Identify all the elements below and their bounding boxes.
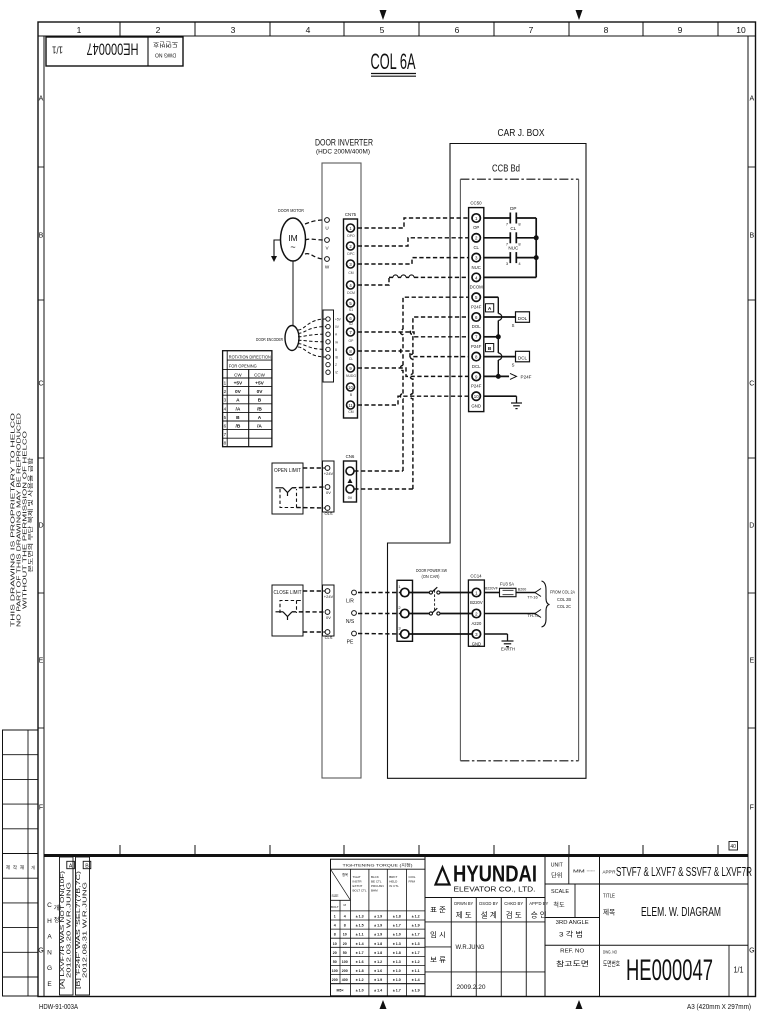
svg-text:CL: CL: [473, 245, 479, 250]
svg-text:± 1.2: ± 1.2: [356, 978, 364, 982]
svg-text:CC50: CC50: [470, 201, 482, 206]
svg-text:7: 7: [529, 25, 534, 35]
svg-text:DCL: DCL: [472, 364, 481, 369]
svg-text:(ON CAR): (ON CAR): [422, 574, 440, 580]
svg-text:+24V: +24V: [324, 594, 334, 599]
svg-text:TITLE: TITLE: [603, 894, 615, 900]
svg-text:W.R.JUNG: W.R.JUNG: [456, 945, 485, 951]
svg-text:P24F: P24F: [521, 375, 532, 380]
svg-text:0V: 0V: [257, 389, 264, 395]
svg-text:CN6: CN6: [346, 454, 355, 459]
svg-text:± 1.0: ± 1.0: [393, 978, 401, 982]
svg-text:+5V: +5V: [255, 381, 264, 387]
svg-text:GND: GND: [472, 641, 481, 646]
svg-text:P24F: P24F: [471, 384, 482, 389]
svg-text:도면번호: 도면번호: [153, 41, 178, 50]
svg-text:REF. NO: REF. NO: [560, 949, 584, 955]
svg-text:TT-16: TT-16: [527, 595, 538, 600]
svg-text:C: C: [47, 902, 52, 909]
svg-text:± 1.6: ± 1.6: [374, 969, 382, 973]
svg-text:4: 4: [306, 25, 311, 35]
svg-text:50: 50: [343, 951, 347, 955]
svg-text:2009.2.20: 2009.2.20: [457, 984, 486, 991]
svg-text:BHM: BHM: [371, 889, 378, 893]
svg-text:EXTNT: EXTNT: [353, 884, 363, 888]
svg-text:COL 2B: COL 2B: [557, 597, 571, 602]
svg-text:/B: /B: [235, 424, 240, 430]
svg-text:COL 2C: COL 2C: [557, 604, 571, 609]
svg-text:± 1.7: ± 1.7: [393, 989, 401, 993]
svg-text:2: 2: [156, 25, 161, 35]
svg-text:HE000047: HE000047: [87, 40, 139, 59]
svg-text:200: 200: [332, 978, 338, 982]
svg-text:CAR J. BOX: CAR J. BOX: [498, 128, 545, 139]
svg-text:100: 100: [342, 960, 348, 964]
svg-text:BLCK: BLCK: [371, 875, 379, 879]
svg-text:UNIT: UNIT: [551, 863, 564, 869]
svg-text:개: 개: [31, 864, 35, 870]
svg-text:4: 4: [334, 924, 336, 928]
svg-text:F: F: [39, 805, 43, 812]
svg-text:10: 10: [348, 385, 353, 390]
svg-text:S: S: [512, 323, 515, 328]
svg-text:± 1.9: ± 1.9: [412, 989, 420, 993]
svg-text:± 1.1: ± 1.1: [356, 933, 364, 937]
svg-text:1: 1: [77, 25, 82, 35]
svg-text:OP: OP: [473, 225, 479, 230]
svg-text:B220V: B220V: [470, 600, 483, 605]
svg-text:BRKT: BRKT: [389, 875, 397, 879]
svg-text:± 1.5: ± 1.5: [356, 924, 364, 928]
svg-text:본도면의 무단 복제 및 사용을 금함: 본도면의 무단 복제 및 사용을 금함: [27, 458, 35, 573]
svg-text:400: 400: [342, 978, 348, 982]
svg-text:척도: 척도: [553, 901, 565, 909]
svg-text:NUC: NUC: [508, 246, 519, 251]
svg-text:설 계: 설 계: [481, 911, 497, 920]
svg-text:B: B: [749, 233, 754, 240]
svg-text:A: A: [47, 934, 52, 941]
svg-text:± 1.8: ± 1.8: [393, 915, 401, 919]
svg-text:0V: 0V: [326, 490, 331, 495]
svg-text:± 1.3: ± 1.3: [412, 942, 420, 946]
svg-text:CCW: CCW: [254, 372, 265, 377]
svg-text:± 1.2: ± 1.2: [412, 960, 420, 964]
svg-text:N/S: N/S: [346, 619, 355, 625]
svg-text:COIL: COIL: [409, 875, 416, 879]
svg-text:BE CTL: BE CTL: [371, 880, 382, 884]
svg-text:± 1.4: ± 1.4: [412, 978, 420, 982]
svg-text:M5×: M5×: [336, 989, 343, 993]
svg-text:200: 200: [342, 969, 348, 973]
svg-text:± 1.2: ± 1.2: [412, 915, 420, 919]
svg-text:1/1: 1/1: [734, 966, 744, 975]
svg-text:± 1.3: ± 1.3: [356, 915, 364, 919]
svg-text:A: A: [39, 96, 44, 103]
svg-text:NUC: NUC: [472, 265, 481, 270]
svg-text:TIGHTENING TORQUE (지정): TIGHTENING TORQUE (지정): [343, 862, 414, 868]
svg-text:± 1.7: ± 1.7: [393, 924, 401, 928]
svg-text:DP: DP: [510, 206, 516, 211]
svg-text:40: 40: [730, 844, 736, 850]
svg-text:DCOM: DCOM: [470, 285, 484, 290]
svg-text:HDW-91-003A: HDW-91-003A: [39, 1002, 78, 1011]
svg-text:정: 정: [54, 917, 60, 924]
svg-text:INSTR: INSTR: [353, 880, 363, 884]
svg-text:± 1.7: ± 1.7: [412, 933, 420, 937]
svg-text:검 도: 검 도: [506, 911, 522, 920]
svg-text:A3 (420mm X 297mm): A3 (420mm X 297mm): [687, 1004, 751, 1011]
svg-text:재: 재: [20, 864, 24, 871]
svg-text:B: B: [236, 415, 240, 421]
svg-text:DOOR INVERTER: DOOR INVERTER: [315, 138, 373, 149]
svg-text:± 1.8: ± 1.8: [374, 951, 382, 955]
svg-text:DWG NO: DWG NO: [155, 52, 176, 58]
svg-text:C: C: [38, 381, 43, 388]
svg-text:A: A: [258, 415, 262, 421]
svg-text:3: 3: [231, 25, 236, 35]
svg-text:DSGD BY: DSGD BY: [479, 901, 498, 906]
svg-text:DCL: DCL: [518, 356, 528, 361]
svg-text:9: 9: [678, 25, 683, 35]
svg-text:A: A: [236, 398, 240, 404]
svg-text:H: H: [47, 918, 52, 925]
svg-text:G: G: [749, 948, 754, 955]
svg-text:S1: S1: [349, 308, 353, 312]
svg-text:/B: /B: [335, 356, 338, 360]
svg-text:20: 20: [333, 951, 337, 955]
svg-text:BOLT: BOLT: [331, 905, 339, 909]
svg-text:G: G: [38, 948, 43, 955]
svg-text:+5V: +5V: [234, 381, 243, 387]
svg-text:DWG. NO: DWG. NO: [603, 950, 617, 956]
svg-text:± 1.1: ± 1.1: [412, 969, 420, 973]
svg-text:± 1.0: ± 1.0: [393, 969, 401, 973]
svg-text:DRWN BY: DRWN BY: [454, 901, 473, 906]
svg-text:U: U: [325, 226, 328, 231]
svg-text:DPC: DPC: [347, 252, 355, 256]
svg-text:E: E: [749, 658, 754, 665]
svg-text:MM ┄┄: MM ┄┄: [573, 869, 595, 874]
svg-text:FROM COL 2A: FROM COL 2A: [550, 590, 575, 595]
svg-text:10: 10: [333, 942, 337, 946]
svg-text:DOL: DOL: [472, 324, 481, 329]
svg-text:± 1.4: ± 1.4: [356, 942, 364, 946]
svg-text:D: D: [38, 523, 43, 530]
svg-text:(HDC 200M/400M): (HDC 200M/400M): [316, 149, 370, 156]
svg-text:8: 8: [604, 25, 609, 35]
svg-text:ROTATION DIRECTION: ROTATION DIRECTION: [229, 354, 271, 359]
svg-text:E: E: [39, 658, 44, 665]
svg-text:OLS: OLS: [324, 511, 332, 516]
svg-text:/B: /B: [257, 406, 262, 412]
svg-text:3RD ANGLE: 3RD ANGLE: [556, 920, 590, 926]
svg-text:W: W: [325, 265, 330, 270]
svg-text:항목: 항목: [342, 872, 348, 877]
svg-text:10: 10: [343, 933, 347, 937]
svg-text:COL 6A: COL 6A: [371, 49, 416, 74]
svg-text:8: 8: [344, 924, 346, 928]
svg-text:N: N: [47, 949, 52, 956]
svg-text:임 시: 임 시: [430, 931, 446, 939]
svg-text:CM: CM: [348, 271, 353, 275]
svg-text:도면번호: 도면번호: [603, 959, 620, 968]
svg-text:A: A: [69, 863, 73, 869]
svg-text:± 1.3: ± 1.3: [393, 942, 401, 946]
svg-text:FRM: FRM: [409, 880, 416, 884]
svg-text:B200: B200: [518, 588, 526, 592]
svg-text:± 1.7: ± 1.7: [356, 951, 364, 955]
svg-text:B: B: [85, 863, 89, 869]
svg-text:E: E: [47, 981, 52, 988]
svg-text:HELD: HELD: [389, 880, 398, 884]
svg-text:참고도면: 참고도면: [556, 959, 589, 968]
svg-text:CC14: CC14: [470, 574, 482, 579]
svg-text:D: D: [749, 523, 754, 530]
svg-text:± 1.8: ± 1.8: [374, 942, 382, 946]
svg-text:± 1.9: ± 1.9: [374, 933, 382, 937]
svg-text:PE: PE: [347, 640, 354, 646]
svg-text:DOL: DOL: [518, 316, 528, 321]
svg-text:6: 6: [455, 25, 460, 35]
svg-text:CN75: CN75: [345, 212, 357, 217]
svg-text:± 1.8: ± 1.8: [356, 969, 364, 973]
svg-text:보 류: 보 류: [430, 956, 447, 964]
svg-text:표 준: 표 준: [430, 906, 447, 914]
svg-text:CLOSE LIMIT: CLOSE LIMIT: [274, 590, 302, 596]
svg-text:± 1.6: ± 1.6: [356, 960, 364, 964]
svg-text:TGHT: TGHT: [353, 875, 361, 879]
svg-text:5: 5: [380, 25, 385, 35]
svg-text:제: 제: [6, 864, 10, 871]
svg-text:B: B: [39, 233, 44, 240]
svg-text:TH-75: TH-75: [527, 613, 539, 618]
svg-text:F: F: [750, 805, 754, 812]
svg-text:/Z: /Z: [335, 371, 338, 375]
svg-text:± 1.2: ± 1.2: [374, 960, 382, 964]
svg-text:B: B: [258, 398, 262, 404]
svg-text:± 1.0: ± 1.0: [356, 989, 364, 993]
svg-text:CM: CM: [348, 410, 353, 414]
svg-text:HYUNDAI: HYUNDAI: [453, 861, 537, 887]
svg-text:IN CTL: IN CTL: [389, 884, 399, 888]
svg-text:B: B: [488, 346, 492, 352]
svg-text:± 1.9: ± 1.9: [374, 915, 382, 919]
svg-text:C: C: [749, 381, 754, 388]
svg-text:± 1.9: ± 1.9: [374, 924, 382, 928]
svg-text:Z: Z: [335, 363, 337, 367]
svg-text:0V: 0V: [348, 496, 353, 500]
svg-text:CL: CL: [510, 226, 516, 231]
svg-text:B220VF: B220VF: [485, 587, 499, 591]
svg-text:[A] LXVF7R WAS NOT ON(10F): [A] LXVF7R WAS NOT ON(10F): [60, 870, 66, 989]
svg-text:SIZE: SIZE: [331, 894, 338, 898]
svg-text:100: 100: [332, 969, 338, 973]
svg-text:4: 4: [344, 915, 346, 919]
svg-text:0V: 0V: [326, 615, 331, 620]
svg-text:DOOR MOTOR: DOOR MOTOR: [278, 208, 304, 214]
svg-text:S2: S2: [349, 322, 353, 326]
svg-text:P24F: P24F: [471, 304, 482, 309]
svg-text:STVF7 & LXVF7 & SSVF7 & LXVF7R: STVF7 & LXVF7 & SSVF7 & LXVF7R: [616, 865, 752, 879]
svg-text:DOOR ENCODER: DOOR ENCODER: [256, 337, 283, 343]
svg-text:제 도: 제 도: [456, 911, 472, 920]
svg-text:± 1.9: ± 1.9: [412, 924, 420, 928]
svg-text:S: S: [512, 363, 515, 368]
svg-text:DCM: DCM: [347, 291, 355, 295]
svg-text:GND: GND: [471, 403, 481, 408]
svg-text:A220: A220: [472, 621, 482, 626]
svg-text:승 인: 승 인: [531, 911, 547, 920]
svg-text:G: G: [47, 965, 52, 972]
svg-text:10: 10: [736, 25, 746, 35]
svg-text:+24V: +24V: [324, 471, 334, 476]
svg-text:11: 11: [348, 403, 353, 408]
svg-text:DPO: DPO: [347, 234, 355, 238]
svg-text:~: ~: [290, 242, 295, 252]
svg-text:SCALE: SCALE: [551, 889, 570, 895]
svg-text:B: B: [335, 348, 337, 352]
svg-text:2012.03.20 W.R.JUNG: 2012.03.20 W.R.JUNG: [67, 882, 73, 978]
svg-text:P24F: P24F: [471, 344, 482, 349]
svg-text:A: A: [488, 306, 492, 312]
svg-text:3 각 법: 3 각 법: [559, 930, 583, 939]
svg-text:DOOR POWER SW: DOOR POWER SW: [416, 568, 447, 574]
svg-text:± 1.7: ± 1.7: [412, 951, 420, 955]
svg-text:[B] 'F24F' WAS 'SEL7'(7B,7C): [B] 'F24F' WAS 'SEL7'(7B,7C): [76, 870, 82, 989]
svg-text:CW: CW: [234, 372, 242, 377]
svg-text:BOLT CTL: BOLT CTL: [353, 889, 367, 893]
svg-text:10: 10: [474, 394, 479, 399]
svg-text:FOR OPENING: FOR OPENING: [229, 364, 257, 369]
svg-text:L/R: L/R: [346, 599, 354, 605]
svg-text:± 1.9: ± 1.9: [374, 978, 382, 982]
svg-text:FU3 5A: FU3 5A: [500, 582, 514, 587]
svg-text:단위: 단위: [551, 872, 562, 880]
svg-text:OPEN LIMIT: OPEN LIMIT: [274, 468, 301, 474]
svg-text:ELEM. W. DIAGRAM: ELEM. W. DIAGRAM: [641, 905, 721, 919]
svg-text:± 1.3: ± 1.3: [393, 960, 401, 964]
svg-text:NUDG: NUDG: [346, 374, 356, 378]
svg-text:50: 50: [333, 960, 337, 964]
svg-text:± 1.0: ± 1.0: [393, 933, 401, 937]
svg-text:CHKD BY: CHKD BY: [504, 901, 523, 906]
svg-text:/A: /A: [235, 406, 240, 412]
svg-text:APP'R: APP'R: [603, 870, 616, 875]
svg-text:HE000047: HE000047: [626, 954, 713, 987]
svg-text:A: A: [749, 96, 754, 103]
svg-text:PRCHSN: PRCHSN: [371, 884, 384, 888]
svg-text:1/1: 1/1: [52, 44, 63, 56]
svg-text:CL: CL: [349, 357, 353, 361]
svg-text:제목: 제목: [603, 909, 615, 917]
svg-text:ELEVATOR CO., LTD.: ELEVATOR CO., LTD.: [454, 885, 536, 894]
svg-text:± 1.4: ± 1.4: [374, 989, 382, 993]
svg-text:20: 20: [343, 942, 347, 946]
svg-text:개: 개: [54, 904, 60, 912]
svg-text:8: 8: [334, 933, 336, 937]
svg-text:2012.08.31 W.R.JUNG: 2012.08.31 W.R.JUNG: [83, 882, 89, 978]
svg-text:CLS: CLS: [325, 635, 333, 640]
svg-text:0V: 0V: [235, 389, 242, 395]
svg-text:± 1.8: ± 1.8: [393, 951, 401, 955]
svg-text:작: 작: [13, 864, 17, 871]
svg-text:OP: OP: [349, 339, 355, 343]
svg-text:/A: /A: [257, 424, 262, 430]
svg-text:1: 1: [334, 915, 336, 919]
svg-text:CCB Bd: CCB Bd: [492, 163, 520, 175]
svg-text:EARTH: EARTH: [501, 647, 515, 652]
svg-text:APP'D BY: APP'D BY: [529, 901, 548, 906]
svg-text:+5V: +5V: [335, 318, 342, 322]
